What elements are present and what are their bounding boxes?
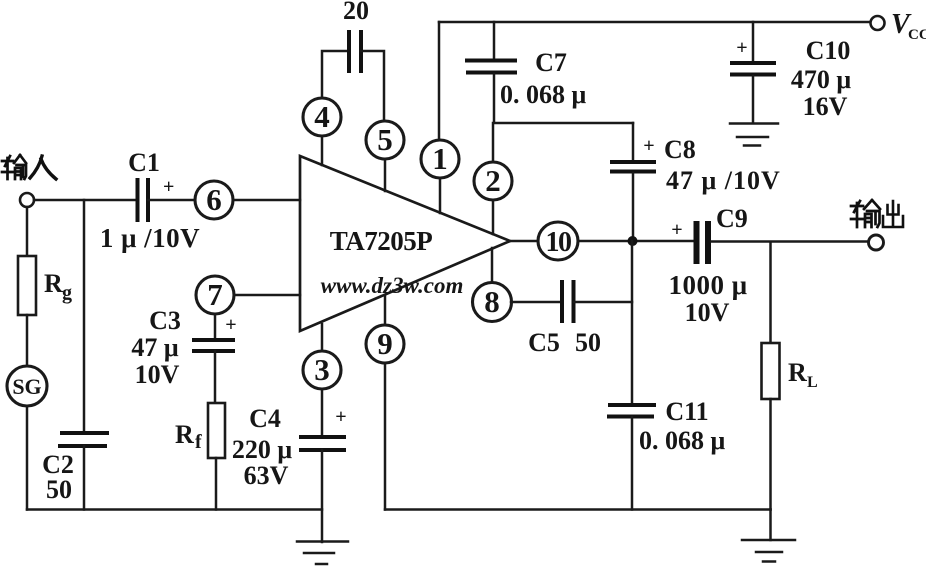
wire pin1 to op-amp edge	[439, 178, 442, 213]
svg-text:+: +	[163, 176, 174, 198]
svg-text:3: 3	[314, 352, 330, 387]
pin 7	[196, 276, 234, 314]
svg-text:C7: C7	[535, 48, 567, 77]
svg-text:+: +	[736, 37, 747, 59]
capacitor C9	[668, 204, 747, 327]
svg-text:C9: C9	[716, 204, 748, 233]
pin 2	[474, 162, 512, 200]
wire Rg to SG	[26, 315, 29, 366]
capacitor C7	[465, 48, 587, 109]
svg-text:470 μ: 470 μ	[791, 65, 852, 94]
signal source SG	[7, 366, 47, 406]
svg-text:TA7205P: TA7205P	[330, 226, 433, 256]
svg-text:+: +	[335, 406, 346, 428]
ground (under RL)	[742, 540, 795, 562]
pin 6	[195, 181, 233, 219]
capacitor C2	[42, 433, 109, 504]
svg-text:1: 1	[432, 141, 448, 176]
svg-text:f: f	[195, 431, 202, 453]
svg-text:10V: 10V	[685, 298, 730, 327]
pin 10	[538, 222, 578, 260]
wire pin3 to C4	[321, 389, 324, 436]
node: output terminal	[869, 235, 884, 250]
wire pin5 to op-amp edge	[384, 159, 387, 191]
pin 8	[473, 283, 512, 322]
wire op-amp edge to pin8	[491, 248, 494, 283]
node: Vcc terminal	[871, 16, 885, 30]
svg-text:20: 20	[343, 0, 369, 25]
label 输出 (output)	[851, 200, 903, 227]
wire cap 20 to pin5	[361, 51, 384, 121]
wire C2 to rail	[83, 446, 86, 510]
resistor Rf	[175, 403, 225, 458]
svg-text:10V: 10V	[135, 360, 180, 389]
wire down to C8	[632, 123, 635, 160]
svg-text:SG: SG	[12, 374, 41, 399]
svg-text:C3: C3	[149, 306, 181, 335]
svg-text:+: +	[671, 219, 682, 241]
svg-text:1 μ /10V: 1 μ /10V	[100, 223, 200, 253]
svg-text:4: 4	[314, 99, 330, 134]
svg-text:5: 5	[377, 122, 393, 157]
resistor Rg	[18, 256, 72, 315]
svg-text:63V: 63V	[244, 461, 289, 490]
right ground rail	[385, 508, 771, 511]
wire pin4 to op-amp edge	[321, 136, 324, 165]
svg-text:R: R	[175, 420, 194, 449]
wire op-amp apex to pin10	[510, 240, 539, 243]
svg-text:16V: 16V	[803, 92, 848, 121]
svg-text:C1: C1	[128, 148, 160, 177]
wire rail down to C10	[752, 22, 755, 61]
svg-text:R: R	[788, 358, 807, 387]
svg-text:9: 9	[377, 326, 393, 361]
wire pin9 to right rail	[384, 363, 387, 510]
ground (under C10)	[730, 124, 778, 146]
svg-text:C11: C11	[665, 397, 708, 426]
svg-text:g: g	[62, 282, 72, 304]
wire pin6 to op-amp	[233, 199, 300, 202]
svg-text:C4: C4	[249, 404, 281, 433]
wire RL to right rail	[769, 399, 772, 510]
pin 1	[421, 140, 459, 178]
svg-text:7: 7	[207, 277, 223, 312]
svg-text:C10: C10	[806, 36, 851, 65]
wire right rail to ground	[769, 510, 772, 541]
wire SG to ground rail	[26, 406, 29, 510]
svg-text:10: 10	[546, 227, 572, 258]
wire C3 to Rf	[214, 351, 217, 403]
wire input to C1	[34, 199, 135, 202]
resistor RL	[762, 343, 818, 399]
Vcc top rail	[439, 21, 869, 24]
wire pin2 to op-amp edge	[492, 200, 495, 234]
wire C10 to ground	[752, 76, 755, 122]
capacitor C10	[730, 36, 851, 121]
svg-text:C8: C8	[664, 135, 696, 164]
wire C11 to right rail	[631, 417, 634, 510]
svg-text:+: +	[225, 314, 236, 336]
pin 5	[366, 121, 404, 159]
svg-text:47 μ /10V: 47 μ /10V	[666, 166, 781, 195]
left ground rail	[27, 508, 322, 511]
wire C1 to pin6	[148, 199, 195, 202]
pin 9	[366, 325, 404, 363]
svg-text:R: R	[44, 269, 63, 298]
capacitor C1	[100, 148, 200, 253]
wire rail down to pin1	[438, 22, 441, 140]
svg-text:6: 6	[206, 182, 222, 217]
label Vcc	[891, 9, 926, 43]
wire output node down to RL	[769, 242, 772, 343]
capacitor C8	[610, 135, 781, 195]
svg-text:8: 8	[484, 284, 500, 319]
ground (under C4)	[297, 542, 348, 565]
svg-text:www.dz3w.com: www.dz3w.com	[321, 273, 464, 298]
wire op-amp edge to pin3	[321, 324, 324, 351]
capacitor C3	[131, 306, 236, 389]
svg-text:47 μ: 47 μ	[131, 333, 179, 362]
wire pin7 to C3	[214, 314, 217, 340]
svg-text:CC: CC	[908, 27, 926, 43]
svg-text:0. 068 μ: 0. 068 μ	[500, 80, 587, 109]
capacitor C4	[232, 404, 347, 490]
pin 3	[303, 351, 341, 389]
capacitor C5	[528, 280, 601, 357]
wire node to C2	[83, 200, 86, 433]
wire output node down to C11	[631, 241, 634, 405]
wire pin4 up and to cap 20	[322, 51, 349, 98]
node: input terminal	[20, 193, 34, 207]
svg-text:2: 2	[485, 163, 501, 198]
wire op-amp edge to pin9	[384, 296, 387, 325]
wire pin10 to C9	[578, 240, 693, 243]
svg-text:0. 068 μ: 0. 068 μ	[639, 426, 726, 455]
wire C4 through rail to ground	[321, 450, 324, 542]
svg-text:+: +	[643, 135, 654, 157]
wire input down to Rg	[26, 207, 29, 256]
wire pin7 to op-amp	[234, 294, 300, 297]
wire Rf to rail	[215, 458, 218, 510]
wire C9 to output terminal	[711, 240, 868, 243]
svg-text:C5: C5	[528, 328, 560, 357]
op-amp U1 TA7205P	[300, 156, 510, 331]
node: output junction dot	[628, 236, 638, 246]
wire rail down to C7	[493, 22, 496, 58]
capacitor C11	[607, 397, 726, 455]
wire C7 to pin2 node	[493, 74, 633, 161]
capacitor 20 (bootstrap)	[343, 0, 369, 73]
wire pin8 to C5	[511, 301, 562, 304]
wire C8 to output node	[632, 173, 635, 241]
svg-text:220 μ: 220 μ	[232, 435, 293, 464]
svg-text:50: 50	[575, 328, 601, 357]
svg-text:50: 50	[46, 475, 72, 504]
wire C5 to node line	[574, 301, 632, 304]
svg-text:1000 μ: 1000 μ	[668, 270, 747, 300]
pin 4	[303, 98, 341, 136]
label 输入 (input)	[2, 155, 56, 179]
svg-text:L: L	[807, 374, 818, 391]
